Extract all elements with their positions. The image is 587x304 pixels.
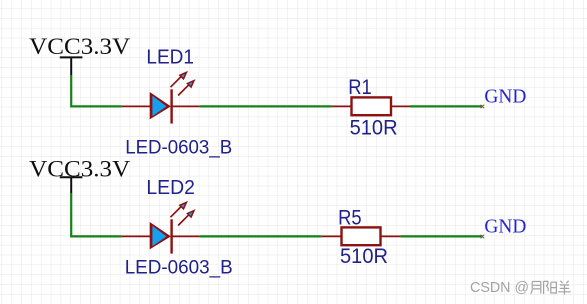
body: [352, 97, 392, 115]
wire LED2 cathode to R5: [200, 235, 322, 237]
wire LED1 cathode to R1: [200, 105, 332, 107]
svg-text:LED2: LED2: [146, 177, 195, 199]
pin 2: [391, 105, 410, 107]
pin 2: [381, 235, 401, 237]
svg-text:LED-0603_B: LED-0603_B: [125, 136, 232, 158]
glyph 月: [531, 282, 541, 294]
resistor R1: [332, 97, 410, 115]
svg-text:510R: 510R: [350, 115, 398, 139]
glyph 羊: [558, 281, 571, 295]
pin 2 (cathode): [172, 105, 200, 107]
wire VCC to LED1 anode: [71, 75, 121, 106]
glyph 阳: [544, 281, 557, 294]
svg-text:CSDN @: CSDN @: [470, 279, 529, 296]
svg-text:GND: GND: [484, 216, 526, 238]
pin 2 (cathode): [172, 235, 200, 237]
wire VCC to LED2 anode: [71, 193, 121, 236]
svg-text:R1: R1: [348, 75, 372, 99]
body: [342, 227, 381, 245]
resistor R5: [322, 227, 401, 245]
svg-text:GND: GND: [484, 86, 526, 108]
cathode bar: [170, 89, 172, 123]
pin 1 (anode): [122, 105, 151, 107]
svg-text:LED-0603_B: LED-0603_B: [125, 256, 233, 278]
watermark CSDN @月阳羊: [470, 279, 571, 296]
pin 1 (anode): [122, 235, 151, 237]
wire R5 to GND: [400, 235, 482, 237]
emission arrow 1: [171, 202, 187, 217]
anode triangle: [150, 222, 171, 249]
wire end marker (row 2): [481, 235, 485, 239]
wire R1 to GND: [410, 105, 482, 107]
svg-text:LED1: LED1: [146, 46, 194, 68]
svg-text:VCC3.3V: VCC3.3V: [29, 34, 130, 59]
pin 1: [332, 105, 352, 107]
svg-text:R5: R5: [338, 205, 362, 229]
power flag VCC3.3V (row 1): [29, 34, 130, 75]
power flag VCC3.3V (row 2): [29, 156, 130, 193]
pin 1: [322, 235, 342, 237]
wire end marker (row 1): [481, 105, 485, 109]
svg-text:510R: 510R: [340, 244, 388, 268]
LED LED2: [122, 202, 200, 253]
emission arrow 2: [178, 211, 194, 226]
emission arrow 1: [171, 72, 187, 87]
anode triangle: [150, 92, 171, 119]
emission arrow 2: [178, 81, 194, 96]
LED LED1: [122, 72, 200, 123]
cathode bar: [170, 219, 172, 253]
